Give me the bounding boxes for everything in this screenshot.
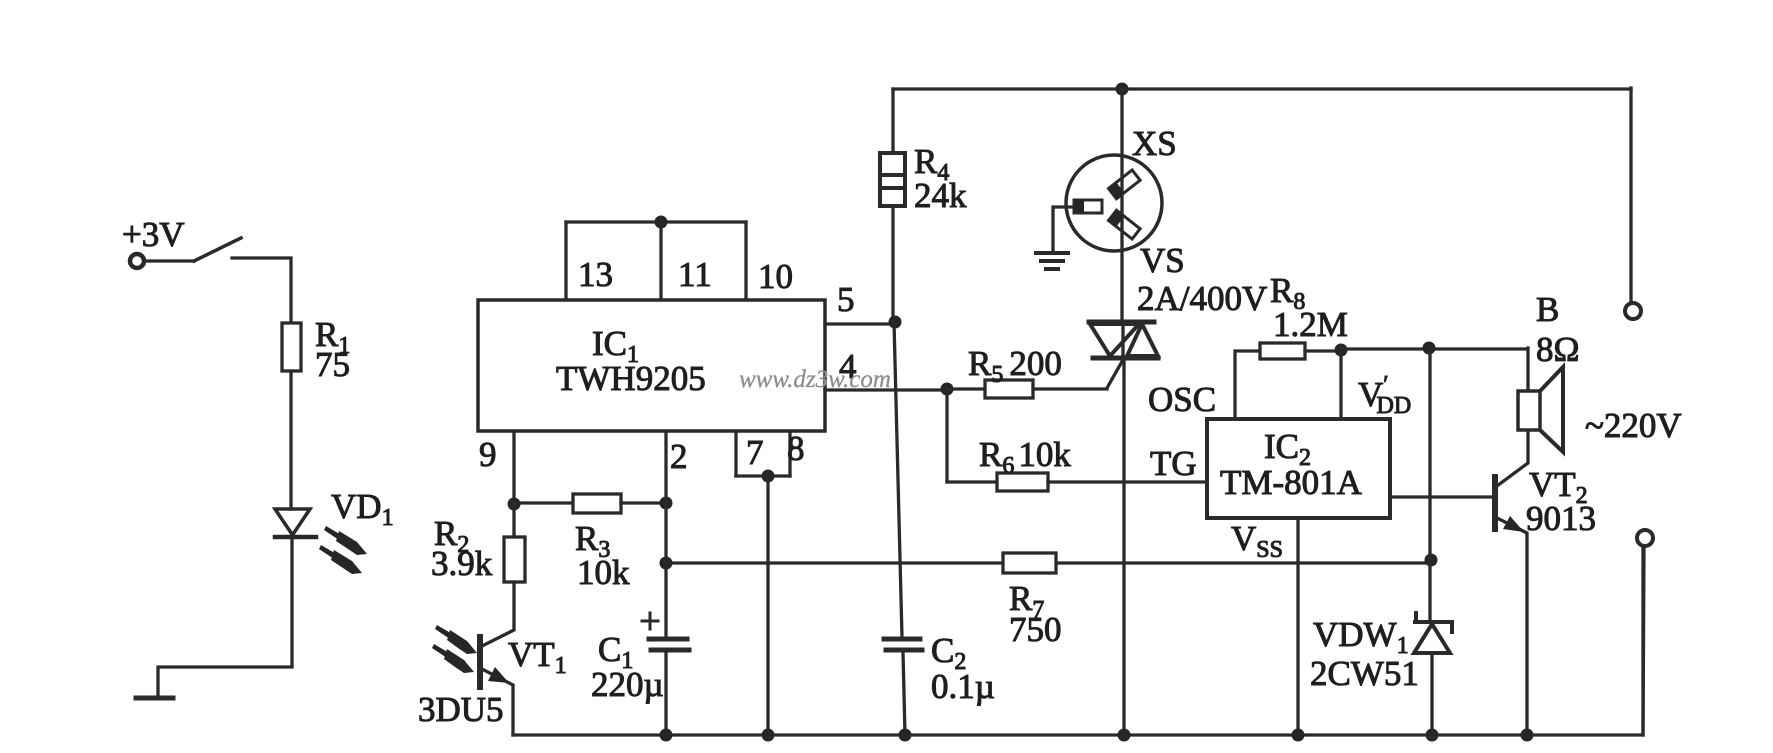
wire pin 2 / C1 line	[664, 431, 667, 735]
svg-text:24k: 24k	[914, 176, 967, 215]
svg-text:R610k: R610k	[979, 435, 1071, 479]
wire	[947, 480, 997, 483]
transistor VT1	[477, 637, 483, 687]
svg-text:R5200: R5200	[968, 344, 1062, 388]
svg-text:TWH9205: TWH9205	[556, 359, 706, 398]
wire	[232, 258, 291, 323]
wire R3 right	[621, 501, 666, 504]
svg-text:VS: VS	[1140, 241, 1185, 280]
svg-text:+3V: +3V	[122, 215, 185, 254]
wire Vss	[1296, 518, 1299, 735]
junction dot	[899, 729, 912, 742]
junction dot Vdd	[1335, 344, 1348, 357]
wire C2 upper	[894, 322, 902, 637]
wire joining 7,8	[736, 474, 790, 477]
wire XS drop	[1120, 89, 1123, 322]
junction dot	[660, 497, 673, 510]
svg-text:3.9k: 3.9k	[431, 544, 493, 583]
svg-text:9: 9	[479, 435, 497, 474]
junction dot	[508, 498, 521, 511]
svg-text:750: 750	[1009, 610, 1062, 649]
pin 7 stub	[734, 431, 737, 476]
svg-text:75: 75	[315, 345, 350, 384]
wire to rail	[766, 476, 769, 735]
svg-text:B: B	[1536, 290, 1559, 329]
svg-text:VDW1: VDW1	[1313, 615, 1409, 659]
junction dot	[1425, 554, 1438, 567]
svg-text:TG: TG	[1150, 444, 1197, 483]
XS blade top	[1108, 170, 1140, 199]
wire pin 4	[825, 388, 947, 391]
XS blade left	[1074, 200, 1102, 213]
speaker B	[1518, 391, 1540, 430]
node terminal upper	[1625, 303, 1641, 319]
pin 10 stub	[744, 222, 747, 300]
wire	[512, 504, 515, 537]
transistor VT2	[1492, 477, 1498, 529]
wire drop to R6	[945, 389, 948, 482]
svg-text:10k: 10k	[577, 553, 630, 592]
wire bottom right	[1643, 547, 1644, 735]
wire to speaker	[1341, 348, 1528, 393]
wire	[1033, 387, 1107, 390]
wire bottom rail	[513, 546, 1643, 735]
VT1 light arrows	[432, 625, 477, 673]
junction dot	[762, 470, 775, 483]
resistor R1	[282, 323, 301, 371]
capacitor C2	[884, 639, 922, 650]
svg-text:10: 10	[758, 257, 793, 296]
wire VT2 collector	[1497, 429, 1528, 486]
junction dot	[1521, 729, 1534, 742]
resistor R8	[1260, 343, 1305, 359]
svg-text:2CW51: 2CW51	[1310, 654, 1419, 693]
junction dot	[1423, 342, 1436, 355]
svg-text:1.2M: 1.2M	[1273, 305, 1348, 344]
node terminal lower	[1637, 530, 1653, 546]
wire VT1 emitter	[482, 669, 513, 735]
wire	[145, 259, 194, 262]
wire Vdd drop	[1339, 350, 1342, 419]
svg-text:XS: XS	[1132, 124, 1177, 163]
junction dot	[1426, 729, 1439, 742]
svg-text:2: 2	[670, 437, 688, 476]
svg-text:TM-801A: TM-801A	[1220, 463, 1363, 502]
svg-text:2A/400V: 2A/400V	[1137, 279, 1267, 318]
pin 13 stub	[564, 222, 567, 300]
svg-text:220µ: 220µ	[591, 665, 664, 704]
triac VS	[1089, 322, 1158, 358]
svg-text:5: 5	[837, 280, 855, 319]
svg-text:13: 13	[578, 255, 613, 294]
wire VDW drop	[1428, 348, 1431, 621]
resistor R4	[880, 153, 905, 206]
svg-text:8Ω: 8Ω	[1536, 330, 1580, 369]
wire	[158, 537, 292, 697]
resistor R2	[504, 537, 525, 582]
switch S1 arm	[194, 238, 241, 261]
pin 8 stub	[788, 431, 791, 476]
resistor R7	[1003, 553, 1056, 573]
wire triac to rail	[1122, 358, 1125, 735]
wire top of pins	[566, 220, 746, 223]
wire top right drop	[1629, 88, 1632, 302]
wire XS to earth	[1053, 207, 1074, 253]
svg-text:OSC: OSC	[1148, 380, 1216, 419]
pin 11 stub	[659, 222, 662, 300]
svg-text:8: 8	[787, 429, 805, 468]
VT2 emitter arrow	[1503, 516, 1524, 532]
svg-text:0.1µ: 0.1µ	[931, 667, 995, 706]
wire R6 to IC2	[1048, 480, 1207, 483]
wire top rail	[893, 87, 1631, 90]
junction dot node 5	[889, 316, 902, 329]
wire through triac	[1121, 322, 1124, 358]
wire R8 left	[1235, 351, 1260, 419]
junction dot	[655, 216, 668, 229]
IC1 TWH9205 box	[478, 300, 825, 431]
resistor R3	[573, 494, 621, 513]
wire IC2 output	[1390, 495, 1491, 498]
C1 plus sign	[642, 613, 658, 629]
zener VDW1	[1414, 613, 1452, 653]
wire R3 left	[514, 501, 573, 504]
resistor R6	[997, 473, 1048, 491]
wire R4 to node	[891, 206, 894, 322]
wire R7 line	[666, 561, 1432, 564]
wire pin 5	[825, 322, 895, 325]
junction dot	[1292, 729, 1305, 742]
wire R8 right	[1305, 349, 1341, 352]
svg-text:7: 7	[746, 433, 764, 472]
junction dot node 4	[941, 383, 954, 396]
LED arrows of VD1	[319, 526, 367, 574]
junction dot	[1118, 729, 1131, 742]
svg-text:3DU5: 3DU5	[418, 690, 504, 729]
svg-text:www.dz3w.com: www.dz3w.com	[739, 366, 891, 393]
wire	[289, 371, 292, 509]
wire R4 top	[891, 89, 894, 153]
wire R2 to VT1	[482, 582, 514, 646]
svg-text:9013: 9013	[1526, 499, 1596, 538]
socket XS circle	[1066, 155, 1162, 251]
ground	[136, 696, 173, 701]
svg-text:11: 11	[678, 255, 712, 294]
capacitor C1	[649, 639, 689, 650]
IC2 TM-801A box	[1207, 419, 1390, 518]
wire triac gate	[1107, 358, 1124, 388]
junction dot	[660, 729, 673, 742]
XS blade bottom	[1108, 210, 1140, 239]
junction dot	[1116, 83, 1129, 96]
earth ground	[1036, 253, 1068, 269]
wire	[947, 387, 985, 390]
junction dot	[762, 729, 775, 742]
wire pin 9	[512, 431, 515, 504]
wire zener to rail	[1430, 654, 1433, 735]
svg-text:~220V: ~220V	[1585, 406, 1682, 445]
resistor R5	[985, 380, 1033, 398]
diode VD1	[275, 509, 316, 537]
wire C2 lower	[903, 652, 905, 735]
node +3V terminal	[130, 254, 144, 268]
wire VT2 emitter	[1497, 518, 1527, 735]
junction dot	[660, 557, 673, 570]
VT1 emitter arrow	[488, 667, 509, 683]
